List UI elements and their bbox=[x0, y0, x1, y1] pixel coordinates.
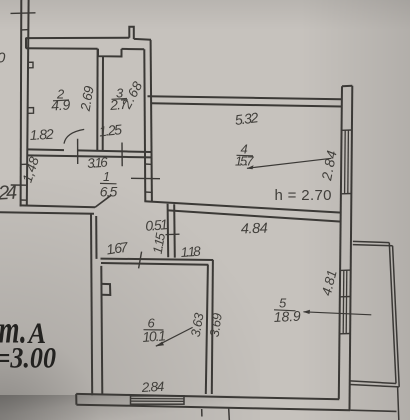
svg-text:1.67: 1.67 bbox=[105, 238, 130, 257]
svg-text:0.51: 0.51 bbox=[145, 216, 169, 234]
svg-text:15.7: 15.7 bbox=[235, 154, 254, 169]
hall bottom wall lower line (extends off image) bbox=[0, 212, 94, 214]
svg-text:5.32: 5.32 bbox=[234, 109, 259, 128]
window1 hatch line a bbox=[344, 130, 347, 194]
nub on left wall at y30 bbox=[22, 29, 29, 31]
wall left outer (shared wall, runs from top edge) bbox=[20, 0, 23, 207]
window1 top tick bbox=[342, 129, 352, 131]
leader line room 5 bbox=[304, 312, 372, 315]
balcony line continuing below bbox=[398, 387, 399, 420]
divider wall rooms 6/5 left line bbox=[206, 265, 208, 394]
dim tick x140 on room6 top wall bbox=[139, 252, 142, 269]
window1 bottom tick bbox=[342, 193, 352, 195]
svg-text:1: 1 bbox=[103, 170, 110, 184]
room6 top wall upper line bbox=[101, 259, 214, 260]
room4 bottom wall lower line bbox=[169, 210, 342, 221]
wall stub left line (0.51) bbox=[167, 204, 170, 257]
room4 top wall upper line bbox=[148, 96, 342, 99]
room 2 label bar bbox=[53, 99, 69, 102]
room 4 label bar bbox=[237, 154, 254, 157]
svg-text:6.5: 6.5 bbox=[100, 184, 118, 200]
svg-text:4.84: 4.84 bbox=[241, 221, 269, 238]
leader line room 6 bbox=[156, 327, 193, 346]
room6 left wall outer line bbox=[91, 214, 92, 395]
niche in room 3 top-left bbox=[98, 49, 122, 57]
arrowhead room5 leader bbox=[303, 310, 310, 314]
dimension tick x122 on hall top wall bbox=[121, 143, 123, 167]
bottom wall top line bbox=[76, 394, 339, 399]
balcony right inner line bbox=[389, 243, 396, 384]
bottom wall left end cap bbox=[75, 394, 77, 405]
shaft step in room6 corner bbox=[102, 284, 110, 295]
wall stub below bottom wall x202 bbox=[201, 409, 203, 417]
window2 bottom tick bbox=[340, 333, 350, 335]
top wall upper line right of chimney bbox=[134, 38, 151, 41]
leader line room 4 bbox=[247, 158, 332, 168]
room 5 label bar bbox=[274, 310, 296, 311]
divider wall rooms 2/3 right line bbox=[102, 56, 104, 151]
hall bottom wall upper line bbox=[20, 205, 95, 207]
rung on left wall y164 bbox=[21, 163, 27, 165]
bottom wall bottom line bbox=[76, 405, 350, 411]
room4 top wall lower line bbox=[152, 103, 342, 106]
wall left inner (room 2 side) bbox=[27, 0, 29, 207]
window room6 outline bbox=[131, 396, 185, 404]
dimension tick on left wall top bbox=[11, 12, 36, 15]
window2 hatch line b bbox=[345, 270, 348, 333]
window2 mid tick bbox=[340, 296, 350, 298]
top wall upper line (rooms 2-3) bbox=[26, 37, 130, 39]
chimney stub on top wall bbox=[129, 27, 134, 39]
svg-text:18.9: 18.9 bbox=[273, 308, 301, 325]
svg-text:3.16: 3.16 bbox=[87, 155, 109, 171]
right wall inner line bbox=[339, 86, 342, 399]
door jamb rung y164 on room4 wall bbox=[145, 163, 152, 165]
wall room3/room4 outer line bbox=[151, 40, 152, 202]
balcony bottom lower line bbox=[350, 385, 399, 387]
arrowhead room4 leader bbox=[247, 165, 254, 169]
door swing arc room 2 bbox=[64, 129, 84, 143]
dim tick on stub (0.51) bbox=[166, 233, 180, 235]
wall room3/room4 inner line bbox=[144, 49, 145, 201]
svg-text:=3.00: =3.00 bbox=[0, 342, 56, 375]
room2 bottom wall lower line bbox=[27, 155, 151, 157]
svg-text:1.82: 1.82 bbox=[29, 126, 54, 143]
dimension dash + rung on left wall y185 bbox=[11, 184, 27, 186]
door jamb rung y192 on room4 wall bbox=[145, 191, 152, 193]
left wall end cap at top wall bbox=[25, 38, 27, 49]
room 6 label bar bbox=[144, 329, 164, 331]
bottom wall bottom line extension to balcony bbox=[350, 410, 396, 411]
balcony right outer line bbox=[393, 246, 400, 387]
door leaf / dim tick at hall-room4 bbox=[131, 177, 160, 179]
svg-text:1.25: 1.25 bbox=[98, 121, 123, 139]
niche nub in left wall y108-113 bbox=[28, 108, 34, 114]
door tick room 2 bbox=[77, 139, 79, 164]
window room6 inner line a bbox=[131, 398, 185, 400]
niche nub in left wall y62-68 bbox=[28, 62, 33, 68]
right wall top cap bbox=[342, 85, 352, 87]
room2 bottom wall upper line left of door bbox=[27, 148, 64, 151]
room2 bottom wall upper line right of door bbox=[78, 150, 151, 152]
balcony bottom upper line bbox=[350, 381, 396, 384]
divider wall rooms 6/5 right line bbox=[212, 260, 213, 394]
rung on left wall y200 bbox=[21, 199, 27, 201]
arrowhead room6 leader bbox=[156, 342, 164, 347]
room6 left wall inner upper segment bbox=[95, 216, 97, 259]
room6 top wall lower line bbox=[101, 263, 208, 265]
wall stub right line bbox=[173, 204, 176, 257]
svg-text:h = 2.70: h = 2.70 bbox=[275, 187, 332, 204]
divider wall rooms 2/3 left line bbox=[96, 49, 98, 151]
svg-text:0: 0 bbox=[0, 50, 6, 67]
svg-text:1.18: 1.18 bbox=[180, 244, 201, 260]
room4 bottom wall upper line bbox=[144, 201, 341, 212]
wall stub below bottom wall x229 bbox=[228, 409, 231, 420]
hall label bar bbox=[100, 182, 117, 184]
top wall lower line (room 3 segment) bbox=[122, 48, 145, 50]
svg-text:24: 24 bbox=[0, 182, 18, 205]
svg-text:2.84: 2.84 bbox=[140, 379, 164, 395]
right wall outer line bbox=[350, 86, 353, 410]
door leaf diagonal at hall bottom bbox=[95, 195, 111, 207]
svg-text:4.9: 4.9 bbox=[51, 96, 71, 113]
window2 hatch line a bbox=[342, 270, 345, 333]
room6 left wall inner line bbox=[101, 266, 102, 395]
svg-text:10.1: 10.1 bbox=[142, 327, 167, 345]
window2 top tick bbox=[341, 269, 351, 271]
window1 hatch line b bbox=[347, 130, 350, 194]
top wall lower line (room 2 ceiling side) bbox=[26, 47, 98, 50]
balcony top lower line bbox=[353, 245, 393, 246]
window room6 inner line b bbox=[131, 400, 185, 402]
balcony top upper line bbox=[353, 241, 389, 242]
room 3 label bar bbox=[112, 98, 128, 101]
